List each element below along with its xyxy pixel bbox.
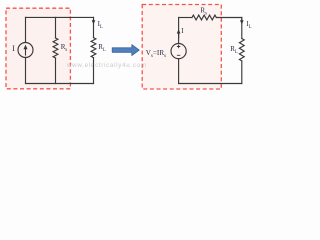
wire: Rs left branch top lead bbox=[55, 17, 57, 38]
wire: current source bottom lead bbox=[25, 57, 27, 83]
wire: RL right branch top lead bbox=[241, 18, 243, 39]
resistor RL (right, zigzag) bbox=[239, 39, 244, 61]
current arrow I (right, up) bbox=[177, 29, 181, 39]
Norton source enclosure (left dashed box) bbox=[6, 8, 70, 89]
voltage source Vs (circle) bbox=[171, 44, 186, 59]
wire: Rs left branch bottom lead bbox=[55, 58, 57, 84]
current arrow IL (right, down) bbox=[240, 19, 244, 25]
wire: current source top lead bbox=[25, 17, 27, 42]
wire: right bottom rail bbox=[179, 83, 242, 85]
current source I (circle) bbox=[18, 43, 33, 58]
resistor RL (left, zigzag) bbox=[91, 38, 96, 58]
wire: right top rail right segment bbox=[216, 17, 241, 19]
wire: right top rail left segment bbox=[179, 17, 192, 19]
wire: RL left branch top lead bbox=[93, 17, 95, 37]
resistor Rs (right, horizontal zigzag) bbox=[192, 15, 216, 20]
svg-text:I: I bbox=[12, 44, 15, 53]
wire: RL left branch bottom lead bbox=[93, 58, 95, 84]
transformation arrow (blue block arrow) bbox=[112, 45, 139, 56]
wire: left bottom rail bbox=[26, 83, 94, 85]
current source arrow (up) bbox=[24, 45, 28, 56]
wire: left top rail bbox=[26, 16, 94, 18]
svg-text:www.electrically4u.com: www.electrically4u.com bbox=[66, 62, 146, 69]
resistor Rs (left, zigzag) bbox=[53, 38, 58, 58]
current arrow IL (left, down) bbox=[92, 19, 96, 25]
wire: Vs bottom lead bbox=[178, 59, 180, 84]
Thevenin source enclosure (right dashed box) bbox=[142, 5, 221, 90]
wire: RL right branch bottom lead bbox=[241, 61, 243, 84]
voltage source polarity + bbox=[177, 45, 180, 48]
voltage source polarity - bbox=[177, 54, 180, 56]
wire: Vs top lead bbox=[178, 18, 180, 44]
